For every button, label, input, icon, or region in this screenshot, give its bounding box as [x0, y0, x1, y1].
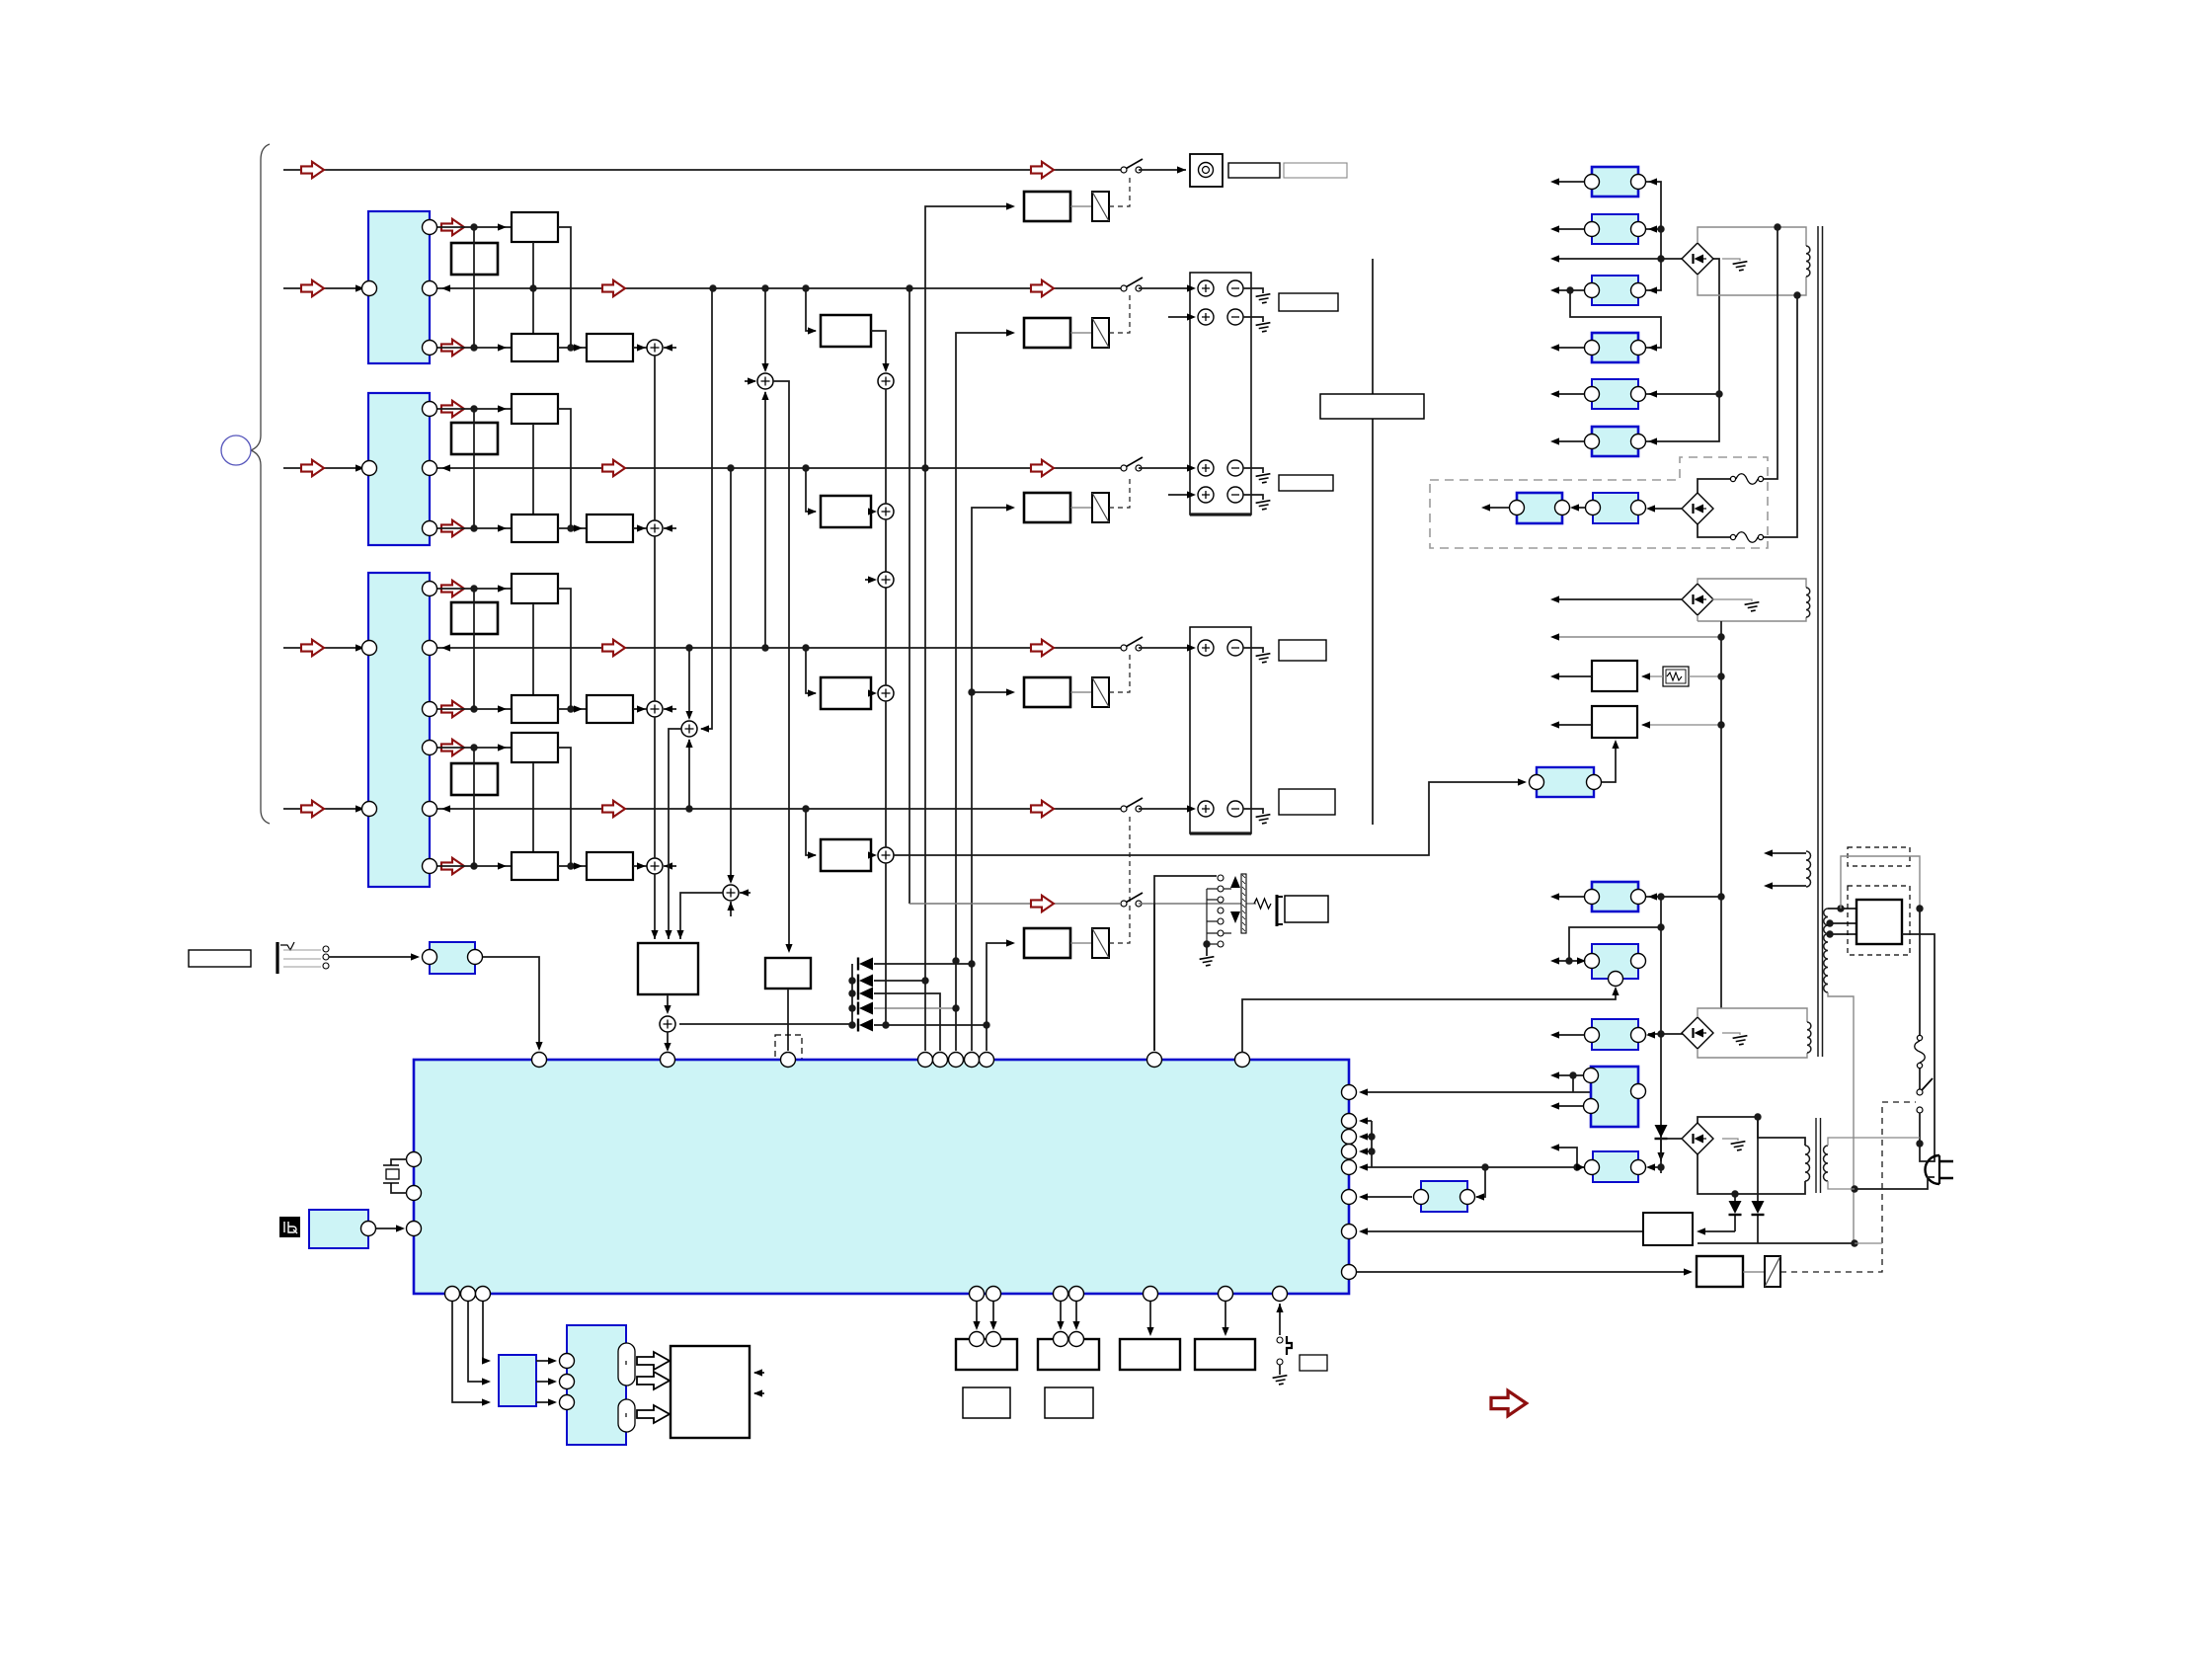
- arrowhead g2 top box in: [498, 405, 507, 412]
- DSP selector IC1: [368, 211, 430, 363]
- arrowhead feedback into circle y292: [441, 284, 450, 291]
- regulator box y184: [1592, 167, 1638, 197]
- wire crystal top: [391, 1159, 407, 1165]
- wire selector frame: [1154, 876, 1217, 1051]
- arrowhead g1 bot box in: [498, 344, 507, 351]
- diode mute y1021: [858, 1002, 873, 1015]
- power supply box x968: [956, 1339, 1017, 1370]
- arrowhead reg out y352: [1550, 344, 1559, 351]
- junction (1597,1182): [1573, 1163, 1580, 1170]
- wire switch to terminal y474: [1139, 467, 1194, 469]
- wire gnd stub y501: [1243, 495, 1263, 500]
- arrowhead relayD in: [1006, 688, 1015, 695]
- front jack contact 969: [323, 954, 329, 960]
- arrowhead reg294: [1648, 286, 1657, 293]
- arrowhead SB in2: [482, 1378, 491, 1385]
- reg pin R y184: [1631, 175, 1646, 190]
- wire relay0 dashed ctrl: [1109, 177, 1130, 206]
- wire x721 drop: [701, 288, 712, 729]
- phones jack rings: [1199, 163, 1214, 178]
- power sense box: [1643, 1213, 1693, 1245]
- wire diode row2: [874, 980, 925, 982]
- wire switch to terminal y656: [1139, 647, 1194, 649]
- wire g3 to sum: [633, 708, 647, 710]
- ground y501: [1256, 501, 1272, 511]
- wire relay3 dashed ctrl: [1109, 655, 1130, 692]
- junction row292 x921: [906, 284, 912, 291]
- junction g3 (480,718): [470, 705, 477, 712]
- junction (1589,973): [1565, 957, 1572, 964]
- wire plug bottom: [1855, 1177, 1935, 1189]
- winding secondary top: [1806, 851, 1811, 887]
- micro bottom pin x1074: [1054, 1287, 1068, 1302]
- junction (1389,1151): [1368, 1133, 1375, 1140]
- wire bridge4 to R11: [1648, 1033, 1683, 1035]
- matrix box small: [765, 958, 811, 989]
- arrowhead g3 box2 in: [574, 705, 583, 712]
- sum node (897,587): [878, 572, 894, 588]
- selector contact 911: [1218, 897, 1224, 903]
- wire R12 out1: [1552, 1074, 1583, 1076]
- wire reg out y294: [1552, 289, 1584, 291]
- sum node (897,866): [878, 847, 894, 863]
- sum node g4: [647, 858, 663, 874]
- amp regulator R12: [1591, 1067, 1638, 1127]
- diode mute y1038: [858, 1019, 873, 1032]
- junction g3 (480,596): [470, 585, 477, 592]
- arrow row out y819: [602, 801, 625, 817]
- arrowhead W2 in: [1641, 721, 1650, 728]
- wire input row y656 left: [283, 647, 361, 649]
- junction row292 x722: [709, 284, 716, 291]
- wire x775 drop: [764, 288, 766, 370]
- aux box 1: [963, 1387, 1010, 1418]
- dashed external PSU boundary: [1430, 457, 1768, 548]
- wire selector col to pin1169: [1153, 904, 1155, 1051]
- label box speakers C: [1279, 640, 1326, 661]
- micro top pin x952: [933, 1053, 948, 1068]
- arrowhead g2 box2 in: [574, 524, 583, 531]
- wire R9 out: [1552, 896, 1584, 898]
- arrowhead R9: [1550, 893, 1559, 900]
- wire gray loop top: [1841, 856, 1920, 909]
- wire switch down: [1919, 1113, 1921, 1144]
- junction (1743,908): [1717, 893, 1724, 900]
- wire ps in x1165: [1149, 1302, 1151, 1334]
- wire diode row1: [874, 963, 972, 965]
- junction (1389,1166): [1368, 1148, 1375, 1154]
- wire driver4 to relay: [1070, 942, 1092, 944]
- wire pd out: [1602, 742, 1616, 782]
- pin (374,656): [362, 641, 377, 656]
- arrowhead reg447: [1648, 437, 1657, 444]
- source node circle: [221, 436, 251, 465]
- terminal + y501: [1198, 487, 1214, 503]
- arrow row out y656: [602, 640, 625, 656]
- relay driver box 2: [1024, 318, 1070, 348]
- arrowhead feedback into circle y656: [441, 644, 450, 651]
- processor box g3 bottom-2: [587, 695, 633, 723]
- micro bottom pin x1165: [1144, 1287, 1158, 1302]
- wire sum738 bottom in: [688, 740, 690, 809]
- relay K4 diagonal: [1092, 677, 1109, 707]
- wire primary bottom: [1828, 992, 1854, 1243]
- arrowhead R10 in: [1577, 957, 1586, 964]
- key/display interface box: [499, 1355, 536, 1406]
- AC plug: [1926, 1155, 1954, 1184]
- hollow arrow display y1398: [637, 1372, 670, 1389]
- selector load box: [1285, 896, 1328, 922]
- wire ps in x1074: [1060, 1302, 1062, 1328]
- junction (863,1006): [848, 990, 855, 996]
- terminal - y501: [1227, 487, 1243, 503]
- wire switch to terminal y292: [1139, 287, 1194, 289]
- arrowhead R9 in: [1648, 893, 1657, 900]
- reg pin R y232: [1631, 222, 1646, 237]
- reset label box: [1300, 1355, 1327, 1371]
- wire ctrl x968: [956, 333, 1013, 1051]
- wire stub into terminal y321: [1168, 316, 1194, 318]
- arrowhead W2 bottom: [1612, 740, 1619, 749]
- label box jack 2: [1284, 163, 1347, 178]
- micro right pin y1151: [1342, 1130, 1357, 1145]
- arrow row right y819: [1031, 801, 1054, 817]
- pin (435,596): [423, 582, 437, 596]
- wire bridge3 loop: [1698, 579, 1806, 621]
- wire g2 bottom out: [437, 527, 512, 529]
- wire input row y819 left: [283, 808, 361, 810]
- arrowhead into matrix box 2: [665, 930, 671, 939]
- processor box g1 bottom-1: [512, 334, 558, 361]
- arrow top-right: [1031, 162, 1054, 178]
- pin (435,535): [423, 521, 437, 536]
- arrowhead reg out y294: [1550, 286, 1559, 293]
- arrow DSP out y535: [441, 520, 464, 536]
- arrowhead feedback into circle y819: [441, 805, 450, 812]
- junction (1743,734): [1717, 721, 1724, 728]
- diode mute y976: [858, 958, 873, 971]
- R10 pin R: [1631, 954, 1646, 969]
- amp regulator R11: [1592, 1019, 1638, 1050]
- wire standby bottom rail: [1698, 1242, 1855, 1244]
- wire sum1037 out: [667, 1032, 669, 1050]
- pin (435,230): [423, 220, 437, 235]
- wire NTC to W1: [1642, 675, 1663, 677]
- arrowhead W1 out: [1550, 673, 1559, 679]
- fuse F2: [1730, 532, 1763, 543]
- wire g2 to sum: [633, 527, 647, 529]
- micro bottom pin x989: [970, 1287, 985, 1302]
- extA pin R: [1555, 501, 1570, 515]
- wire pin1247 from right: [1698, 1230, 1735, 1232]
- relay driver box 3: [1024, 493, 1070, 522]
- wire standby pri loop: [1698, 1117, 1805, 1194]
- extA pin L: [1510, 501, 1525, 515]
- wire reg out y184: [1552, 181, 1584, 183]
- wire fuse bottom: [1698, 524, 1730, 537]
- ext regulator box B: [1593, 493, 1638, 523]
- wire reg232 stub: [1646, 228, 1661, 230]
- junction (1682,939): [1657, 923, 1664, 930]
- wire R12 out2: [1552, 1105, 1583, 1107]
- amp regulator R13: [1593, 1151, 1638, 1182]
- wire W2 in gray: [1642, 724, 1721, 726]
- junction row474 x816: [802, 464, 809, 471]
- junction g4 (480,877): [470, 862, 477, 869]
- power supply box x1134: [1120, 1339, 1180, 1370]
- sum node g1: [647, 340, 663, 356]
- front jack symbol: [277, 942, 321, 974]
- relay K1: [1092, 192, 1109, 221]
- amp regulator R9: [1592, 882, 1638, 911]
- ps pin x1006: [987, 1332, 1001, 1347]
- wire g3 vert x540: [532, 603, 534, 695]
- pin (435,819): [423, 802, 437, 817]
- arrowhead DC in 1399: [548, 1378, 557, 1385]
- matrix box big: [638, 943, 698, 994]
- reg pin L y294: [1585, 283, 1600, 298]
- arrowhead reg399: [1648, 390, 1657, 397]
- wire relay2 dashed ctrl: [1109, 475, 1130, 508]
- arrowhead extB in: [1646, 505, 1655, 512]
- arrowhead into reg790: [1518, 778, 1527, 785]
- micro bottom pin x1241: [1219, 1287, 1233, 1302]
- arrowhead delay2 in: [808, 689, 817, 696]
- bridge rectifier D2: [1682, 493, 1713, 524]
- arrowhead g1 top box in: [498, 223, 507, 230]
- wire long vertical x1390: [1372, 259, 1374, 825]
- terminal + y321: [1198, 309, 1214, 325]
- wire right pin stub y1182: [1361, 1166, 1372, 1168]
- ADC pin R: [468, 950, 483, 965]
- junction row819 x698: [685, 805, 692, 812]
- wire zone2 gray bus: [909, 903, 1120, 905]
- arrowhead R13 via col: [1657, 1152, 1664, 1161]
- wire row bus y656: [437, 647, 1122, 649]
- delay box 3: [821, 677, 871, 709]
- wire sum904 out: [680, 893, 723, 939]
- ground y819: [1256, 815, 1272, 825]
- wire right pin stub y1135: [1361, 1120, 1372, 1122]
- arrowhead sum386 top: [761, 363, 768, 372]
- reg pin L y232: [1585, 222, 1600, 237]
- R12 pin R: [1631, 1084, 1646, 1099]
- protection box W2: [1592, 706, 1637, 738]
- regulator box y294: [1592, 276, 1638, 305]
- wire y1182 up branch: [1552, 1148, 1577, 1167]
- relay driver box 1: [1024, 192, 1070, 221]
- reset switch actuator: [1287, 1336, 1292, 1355]
- display controller box: [567, 1325, 626, 1445]
- EQ box g3: [451, 602, 498, 634]
- wire right stub vert: [1371, 1121, 1373, 1167]
- wire bridge5 gnd stub: [1722, 1139, 1738, 1141]
- wire W2 out: [1552, 724, 1592, 726]
- bridge rectifier D4: [1682, 1017, 1713, 1049]
- wire sum904 right stub: [740, 892, 750, 894]
- wire g4 to sum: [633, 865, 647, 867]
- wire sum386 out to x799: [773, 381, 789, 951]
- regulator box y447: [1592, 427, 1638, 456]
- R11 pin R: [1631, 1028, 1646, 1043]
- aux box 2: [1045, 1387, 1093, 1418]
- junction (1682,262): [1657, 255, 1664, 262]
- selector contact 956: [1218, 941, 1224, 947]
- junction row656 x816: [802, 644, 809, 651]
- wire selector links: [1207, 889, 1231, 944]
- micro bottom pin x489: [476, 1287, 491, 1302]
- wire driver2 to relay: [1070, 507, 1092, 509]
- arrowhead disp1: [753, 1369, 762, 1376]
- wire pin1258 net: [1242, 989, 1616, 1053]
- wire fuse top: [1698, 479, 1730, 493]
- micro top pin x676: [661, 1053, 675, 1068]
- wire bridge5 left: [1661, 1139, 1683, 1173]
- arrow row out y292: [602, 280, 625, 296]
- arrowhead ps box in: [1697, 1227, 1705, 1234]
- terminal - y656: [1227, 640, 1243, 656]
- arrowhead pin1212: [1359, 1193, 1368, 1200]
- arrowhead W1 in: [1641, 673, 1650, 679]
- wire g3 vert x480: [473, 589, 475, 709]
- relay K6: [1765, 1256, 1780, 1287]
- junction (1743,645): [1717, 633, 1724, 640]
- bridge rectifier D5: [1682, 1123, 1713, 1154]
- wire sum904 bottom stub: [730, 902, 732, 916]
- switch bus y656: [1121, 637, 1143, 651]
- DSP selector IC3: [368, 573, 430, 887]
- arrowhead DC in 1420: [548, 1398, 557, 1405]
- arrowhead IR: [396, 1225, 405, 1231]
- power control box: [1856, 900, 1902, 944]
- wire delay0 out: [871, 331, 886, 370]
- wire g2 link boxes: [558, 527, 587, 529]
- sum node g3: [647, 701, 663, 717]
- switch bus y819: [1121, 798, 1143, 812]
- processor box g2 bottom-2: [587, 515, 633, 542]
- arrow input row y819: [301, 801, 324, 817]
- processor box g2 top: [512, 394, 558, 424]
- arrowhead y1162: [1550, 1144, 1559, 1150]
- ground reset: [1273, 1376, 1289, 1386]
- winding primary: [1824, 909, 1828, 992]
- micro right pin y1182: [1342, 1160, 1357, 1175]
- junction row656 x698: [685, 644, 692, 651]
- wire g4 top out: [437, 747, 512, 749]
- arrowhead ps x1006: [989, 1321, 996, 1330]
- arrowhead reg232: [1648, 225, 1657, 232]
- dashed probe rect: [775, 1035, 802, 1123]
- wire R12 link: [1572, 1075, 1574, 1092]
- wire stub into terminal y501: [1168, 494, 1194, 496]
- junction (1944,920): [1916, 905, 1923, 911]
- arrowhead sum386 bot: [761, 391, 768, 400]
- pin (435,352): [423, 341, 437, 356]
- DC pin y1420: [560, 1395, 575, 1410]
- wire right pin stub y1166: [1361, 1150, 1372, 1152]
- DC pin y1399: [560, 1375, 575, 1389]
- crystal X1: [383, 1165, 399, 1183]
- FL display box: [671, 1346, 750, 1438]
- wire box2 down: [787, 989, 789, 1051]
- wire extB to extA: [1572, 507, 1585, 509]
- arrow DSP out y757: [441, 740, 464, 755]
- junction (1682,232): [1657, 225, 1664, 232]
- micro bottom pin x474: [461, 1287, 476, 1302]
- arrow row right y474: [1031, 460, 1054, 476]
- reg pin L y399: [1585, 387, 1600, 402]
- arrowhead sum518 in: [868, 508, 877, 515]
- wire row bus y474: [437, 467, 1122, 469]
- selector down arrow: [1230, 911, 1240, 923]
- arrowhead g1 sum in: [637, 344, 646, 351]
- block C thick bottom: [1190, 831, 1251, 834]
- arrowhead into sum738: [700, 725, 709, 732]
- arrowhead ps x1241: [1222, 1327, 1228, 1336]
- selector contact 933: [1218, 918, 1224, 924]
- wire g3 sum right stub: [664, 708, 676, 710]
- arrowhead g4 box2 in: [574, 862, 583, 869]
- wire standby sec right: [1828, 1138, 1920, 1189]
- diode mute y1006: [858, 988, 873, 1000]
- junction (1743,685): [1717, 673, 1724, 679]
- amp regulator R10: [1592, 944, 1638, 979]
- wire diode row5 left: [679, 1023, 852, 1025]
- front jack contact 978: [323, 963, 329, 969]
- arrowhead delay3 in: [808, 851, 817, 858]
- arrowhead R12a: [1550, 1071, 1559, 1078]
- wire pin489 down: [483, 1302, 489, 1361]
- junction g2 (480,535): [470, 524, 477, 531]
- power switch: [1917, 1078, 1933, 1113]
- switch bus y474: [1121, 457, 1143, 471]
- arrowhead R11 in: [1646, 1031, 1655, 1038]
- wire pin1247 line: [1361, 1230, 1643, 1232]
- junction g4 (480,757): [470, 744, 477, 751]
- processor box g1 bottom-2: [587, 334, 633, 361]
- arrowhead g4 sum stub: [664, 862, 672, 869]
- arrowhead sum702 in: [868, 689, 877, 696]
- sum node (676,1037): [660, 1016, 675, 1032]
- arrowhead g1 sum stub: [664, 344, 672, 351]
- wire delay2 out: [871, 692, 875, 694]
- arrowhead extA: [1481, 504, 1490, 511]
- arrowhead reg out y399: [1550, 390, 1559, 397]
- arrowhead sum1037 top: [664, 1005, 671, 1014]
- arrow row out y474: [602, 460, 625, 476]
- selector contact 900: [1218, 886, 1224, 892]
- relay K2: [1092, 318, 1109, 348]
- junction row474 x740: [727, 464, 734, 471]
- wire delay1 out: [871, 511, 875, 513]
- standby primary: [1805, 1146, 1810, 1181]
- front jack contact 961: [323, 946, 329, 952]
- wire reg out y447: [1552, 440, 1584, 442]
- relay K3 diagonal: [1092, 493, 1109, 522]
- wire ctrl x937: [925, 206, 1013, 1051]
- wire jack to ADC: [329, 956, 418, 958]
- bus bar box: [1320, 394, 1424, 419]
- junction (1878,1259): [1851, 1239, 1857, 1246]
- relay K1 diagonal: [1092, 192, 1109, 221]
- micro bottom pin x1006: [987, 1287, 1001, 1302]
- micro top pin x999: [980, 1053, 994, 1068]
- arrowhead sum904 top: [727, 875, 734, 884]
- wire driver1 to relay: [1070, 332, 1092, 334]
- processor box g4 bottom-1: [512, 852, 558, 880]
- arrow DSP out y414: [441, 401, 464, 417]
- wire switch column: [1919, 909, 1921, 1038]
